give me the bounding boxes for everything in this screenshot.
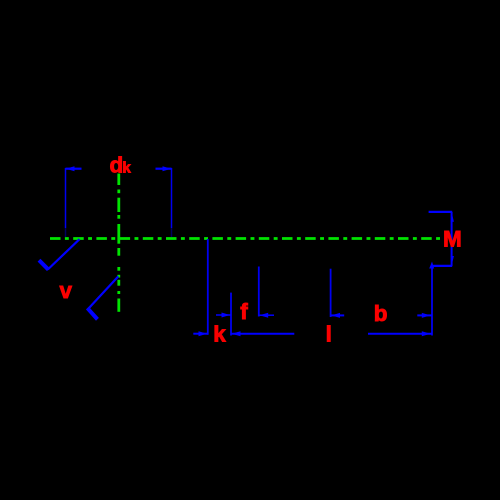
svg-text:v: v bbox=[60, 278, 73, 303]
dk extension line right faded tail bbox=[171, 228, 173, 237]
dk right arrowhead bbox=[163, 166, 172, 171]
M bottom stub (shank bottom edge extension) bbox=[432, 265, 452, 267]
l left arrowhead (shared with k right) bbox=[232, 331, 241, 336]
b dimension right tail bbox=[417, 314, 432, 316]
M top stub (shank top edge extension) bbox=[429, 211, 453, 213]
v leader 1 line bbox=[48, 239, 80, 269]
k dimension left tail bbox=[193, 333, 208, 335]
dk extension line left faded tail bbox=[65, 228, 67, 237]
k/f extension line (dome-cone junction) bbox=[230, 293, 232, 336]
l right arrowhead bbox=[422, 331, 431, 336]
M down arrowhead bbox=[451, 256, 454, 265]
b right arrowhead bbox=[422, 313, 431, 318]
screw tip up arrowhead bbox=[429, 262, 434, 269]
svg-text:d: d bbox=[110, 153, 124, 178]
svg-text:k: k bbox=[122, 159, 131, 176]
v leader 1 barb bbox=[38, 259, 50, 271]
dk extension line left bbox=[65, 168, 67, 228]
v leader 2 barb bbox=[86, 307, 99, 321]
vertical centerline (head front view axis) bbox=[117, 174, 120, 312]
dk dimension line left stub bbox=[66, 168, 82, 170]
horizontal centerline (screw axis) bbox=[50, 237, 443, 240]
f dimension right tail bbox=[259, 314, 274, 316]
l dimension line left segment bbox=[231, 333, 294, 335]
f dimension left tail bbox=[216, 314, 231, 316]
dk extension line right bbox=[171, 168, 173, 228]
l/b extension line (screw tip) bbox=[431, 267, 433, 336]
k extension line (dome tip) bbox=[207, 239, 209, 335]
f extension line (head-shank junction) bbox=[258, 267, 260, 317]
f right arrowhead bbox=[259, 313, 268, 318]
b left arrowhead bbox=[331, 313, 340, 318]
svg-text:k: k bbox=[213, 322, 226, 347]
M dimension vertical line bbox=[451, 212, 453, 266]
b dimension left tail bbox=[331, 314, 345, 316]
dk left arrowhead bbox=[66, 166, 75, 171]
svg-text:f: f bbox=[240, 299, 248, 324]
l dimension line right segment bbox=[368, 333, 432, 335]
M up arrowhead bbox=[451, 212, 454, 221]
f left arrowhead bbox=[222, 313, 231, 318]
svg-text:b: b bbox=[374, 301, 388, 326]
dk dimension line right stub bbox=[156, 168, 172, 170]
svg-text:M: M bbox=[443, 226, 462, 251]
v leader 2 line bbox=[88, 276, 119, 309]
k left arrowhead bbox=[199, 331, 208, 336]
svg-text:l: l bbox=[326, 322, 332, 347]
b extension line (thread start) bbox=[330, 269, 332, 317]
